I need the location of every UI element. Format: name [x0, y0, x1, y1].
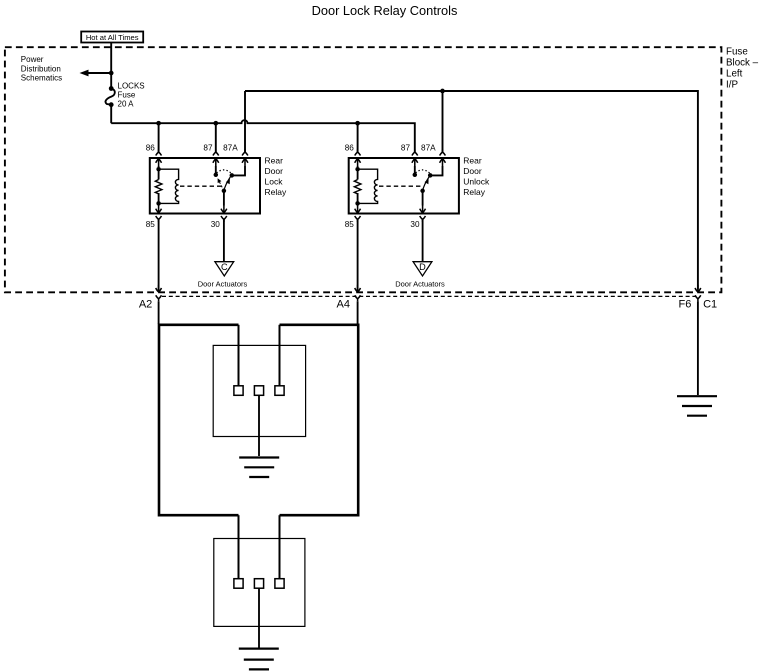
pin 85 crossing relay2 [355, 206, 361, 223]
node: bus junction at relay1 86 [156, 121, 161, 126]
svg-text:30: 30 [410, 220, 420, 229]
arrow to Power Distribution Schematics [87, 72, 111, 74]
M1 terminal square right [275, 386, 284, 396]
module M1 case outline (thick, with top and bottom notches) [159, 325, 358, 515]
relay2 switch: dotted travel arc [416, 170, 431, 174]
pin 86 crossing relay1 [156, 150, 162, 167]
svg-text:20 A: 20 A [118, 99, 135, 108]
M2 terminal square left [234, 579, 243, 589]
svg-text:Lock: Lock [265, 177, 284, 187]
fuse block dashed border [5, 47, 722, 292]
wire: fuse to bus [110, 105, 112, 124]
svg-text:A2: A2 [139, 298, 152, 310]
svg-text:LOCKS: LOCKS [118, 81, 145, 90]
svg-text:Left: Left [726, 69, 743, 80]
M2 inner connector box [214, 539, 305, 627]
svg-text:C1: C1 [703, 298, 717, 310]
pin 30 crossing relay1 [221, 206, 227, 223]
svg-text:Rear: Rear [265, 155, 284, 165]
svg-text:D: D [419, 262, 426, 272]
M2 terminal square right [275, 579, 284, 589]
wire: upper bus to F6 [245, 91, 698, 290]
svg-text:87: 87 [203, 143, 213, 152]
svg-text:Schematics: Schematics [21, 74, 62, 83]
fuse F LOCKS 20 A [109, 86, 114, 91]
M1 terminal square left [234, 386, 243, 396]
node: relay1 coil top [156, 167, 161, 172]
wire: junction to fuse [110, 73, 112, 89]
pin 87 crossing relay2 [412, 150, 418, 167]
svg-text:Unlock: Unlock [463, 177, 490, 187]
M1 terminal square middle [254, 386, 263, 396]
off-page triangle D door actuators [413, 262, 432, 276]
wire: battery feed down from Hot at All Times [110, 43, 112, 74]
svg-text:Relay: Relay [463, 187, 485, 197]
node: upper bus junction at relay2 87A [440, 89, 445, 94]
pin 30 crossing relay2 [420, 206, 426, 223]
relay1 switch: 87A contact [232, 166, 245, 175]
inductor element of relay2 coil [358, 169, 378, 203]
svg-text:30: 30 [211, 220, 221, 229]
wire: drop to relay1 pin 86 [158, 123, 160, 152]
svg-text:A4: A4 [337, 298, 350, 310]
wire: relay1 30 to door actuators C [223, 220, 225, 262]
connector crossing A4 [355, 285, 361, 302]
pin 87A crossing relay1 [242, 150, 248, 167]
wire: M2 middle terminal to ground G3 [258, 588, 260, 647]
svg-text:Rear: Rear [463, 155, 482, 165]
wire: drop to relay2 pin 87A [442, 91, 444, 153]
M1 inner connector box [213, 345, 305, 436]
svg-text:Door Actuators: Door Actuators [395, 279, 445, 288]
pin 87 crossing relay1 [213, 150, 219, 167]
svg-text:Door: Door [463, 166, 482, 176]
svg-text:Fuse: Fuse [726, 47, 748, 58]
connector dashed line (in-line harness connector) [162, 295, 698, 297]
resistor element of relay2 coil [354, 180, 361, 194]
wire: relay1 pivot to pin 30 [223, 191, 225, 206]
wire: relay1 85 to connector A2 [158, 220, 160, 290]
node: relay2 coil bottom [355, 201, 360, 206]
relay U1 box: Rear Door Lock Relay [150, 158, 260, 214]
wire: A2 into module [158, 301, 160, 324]
dashed actuation link relay1 [180, 185, 222, 187]
relay2 switch: pivot and arm to 87A [420, 189, 425, 194]
pin 86 crossing relay2 [355, 150, 361, 167]
wire: M1 bottom notch left down to M2 [238, 515, 240, 579]
wire: M1 middle terminal to ground G2 [258, 395, 260, 456]
svg-text:Relay: Relay [265, 187, 287, 197]
svg-text:Door Lock Relay Controls: Door Lock Relay Controls [312, 3, 458, 18]
svg-text:87A: 87A [421, 143, 436, 152]
svg-text:Door: Door [265, 166, 284, 176]
wire: drop to relay1 pin 87 [215, 123, 217, 152]
wire: relay2 85 to connector A4 [357, 220, 359, 290]
wire: upper bus drop to relay1 pin 87A (crosses lower bus at hop) [244, 91, 246, 153]
resistor element of relay1 coil [155, 180, 162, 194]
inductor element of relay1 coil [159, 169, 179, 203]
ground G1 [677, 396, 717, 416]
wire: C1 to ground G1 [697, 301, 699, 395]
pin 87A crossing relay2 [440, 150, 446, 167]
wire: relay2 30 to door actuators D [422, 220, 424, 262]
relay2 switch: 87A contact [430, 166, 442, 175]
node: relay2 coil top [355, 167, 360, 172]
svg-text:Hot at All Times: Hot at All Times [86, 33, 139, 42]
svg-text:Fuse: Fuse [118, 90, 136, 99]
svg-text:Block –: Block – [726, 58, 759, 69]
node: bus junction at relay2 86 [355, 121, 360, 126]
off-page triangle C door actuators [215, 262, 234, 276]
pin 85 crossing relay1 [156, 206, 162, 223]
node: bus junction at relay1 87 [213, 121, 218, 126]
svg-text:Distribution: Distribution [21, 64, 61, 73]
wire: M1 bottom notch right down to M2 [279, 515, 281, 579]
svg-text:Power: Power [21, 55, 44, 64]
relay2 switch: 87 contact [414, 166, 416, 174]
wire: drop to relay2 pin 86 [357, 123, 359, 152]
node: relay1 coil bottom [156, 201, 161, 206]
relay2 coil branch wires [357, 166, 359, 206]
relay1 coil branch wires [158, 166, 160, 206]
relay1 switch: pivot and arm to 87A [222, 189, 227, 194]
M2 terminal square middle [254, 579, 263, 589]
relay1 switch: dotted travel arc [217, 170, 232, 174]
svg-text:87: 87 [401, 143, 411, 152]
svg-text:85: 85 [345, 220, 355, 229]
wire: relay2 pivot to pin 30 [422, 191, 424, 206]
svg-text:87A: 87A [223, 143, 238, 152]
Hot at All Times box [81, 32, 143, 43]
relay1 switch: 87 contact [215, 166, 217, 174]
wire: A4 into module [357, 301, 359, 324]
relay1 switch: dashed arm to 87 [219, 180, 224, 191]
dashed actuation link relay2 [379, 185, 421, 187]
ground G2 [239, 458, 279, 478]
ground G3 [239, 649, 279, 670]
connector crossing A2 [156, 285, 162, 302]
svg-text:C: C [221, 262, 228, 272]
connector crossing F6 / C1 [695, 285, 701, 302]
wire: lower distribution bus with hop over 87A wire [111, 120, 415, 152]
svg-text:Door Actuators: Door Actuators [198, 279, 248, 288]
wire: notch feed left into M1 [238, 325, 240, 386]
node: fuse feed junction [109, 71, 114, 76]
svg-text:F6: F6 [679, 298, 692, 310]
svg-text:86: 86 [146, 143, 156, 152]
svg-text:I/P: I/P [726, 80, 738, 91]
relay U2 box: Rear Door Unlock Relay [349, 158, 459, 214]
svg-text:86: 86 [345, 143, 355, 152]
svg-text:85: 85 [146, 220, 156, 229]
wire: notch feed right into M1 [279, 325, 281, 386]
